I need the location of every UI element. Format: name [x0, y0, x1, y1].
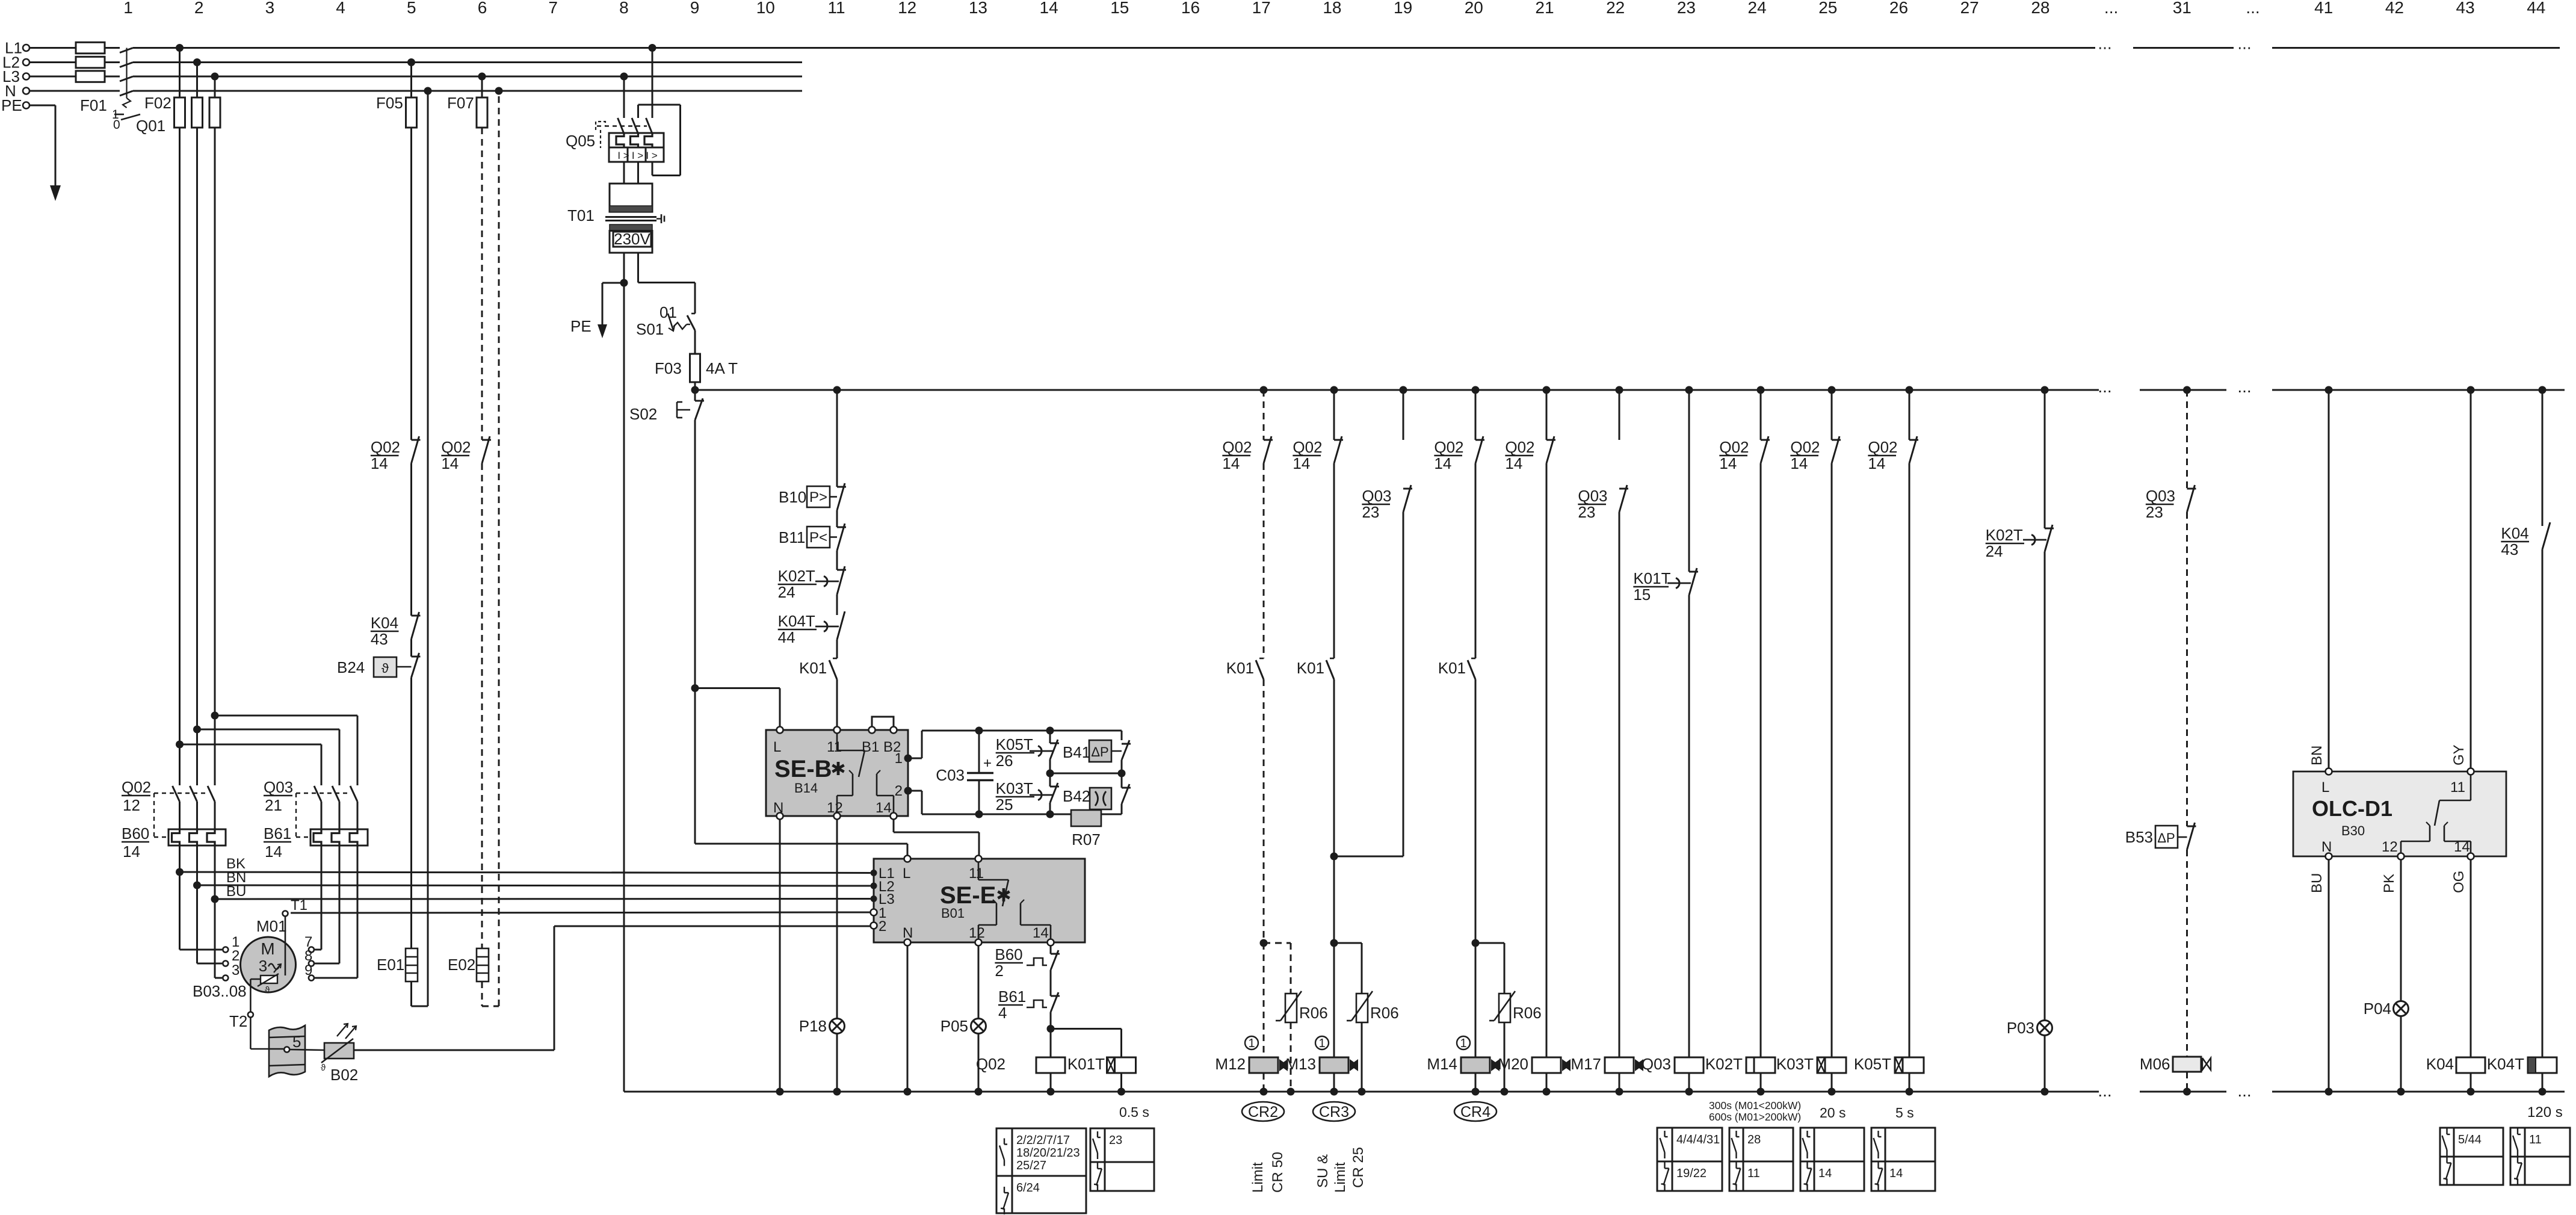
- contact Q02 14 (heater E01): [371, 436, 421, 472]
- svg-text:26: 26: [996, 752, 1013, 770]
- node M14 R06 branch: [1472, 939, 1480, 947]
- node N return: [424, 87, 432, 95]
- wire T1 to SE-E terminal 1: [291, 912, 870, 913]
- SE-E terminal 14: [1048, 939, 1054, 946]
- thermistor B02: [289, 1024, 358, 1084]
- timer contact K04T 44: [778, 611, 845, 646]
- svg-text:K03T: K03T: [996, 779, 1033, 797]
- node tap to Q03 pole 1: [176, 741, 184, 749]
- svg-text:14: 14: [1889, 1167, 1903, 1180]
- svg-text:14: 14: [1040, 0, 1058, 17]
- contact cross-reference table K04: [2440, 1128, 2503, 1185]
- svg-text:1: 1: [1460, 1037, 1466, 1050]
- svg-text:21: 21: [265, 796, 282, 814]
- svg-text:BN: BN: [2309, 746, 2325, 765]
- signal lamp P05: [941, 946, 986, 1092]
- svg-text:01: 01: [659, 303, 677, 321]
- wire SE-B N to rail: [779, 820, 781, 1092]
- fuse F05: [376, 63, 417, 128]
- svg-text:K04T: K04T: [2487, 1055, 2524, 1073]
- SE-E terminal 1 in: [871, 909, 877, 916]
- label CR3: [1313, 1102, 1355, 1121]
- svg-text:F03: F03: [655, 359, 682, 377]
- svg-text:B61: B61: [998, 988, 1026, 1006]
- label CR4: [1454, 1102, 1496, 1121]
- heater E02: [448, 948, 489, 982]
- contactor Q03 main contacts: [264, 778, 357, 837]
- terminal L1: [23, 45, 29, 51]
- resistor R06 (M13): [1334, 943, 1399, 1092]
- svg-text:14: 14: [1719, 454, 1737, 472]
- node C03 top: [975, 727, 983, 735]
- solenoid coil M14 CR4: [1427, 1036, 1500, 1092]
- svg-text:K04: K04: [2501, 524, 2528, 542]
- column ruler numbers: [123, 0, 2545, 17]
- svg-text:M20: M20: [1498, 1055, 1528, 1073]
- wire rung B: [836, 390, 838, 726]
- svg-text:...: ...: [2237, 1081, 2251, 1100]
- motor terminal 8: [309, 961, 314, 966]
- wire T01 secondary live to S01: [638, 253, 696, 314]
- contact B61 4: [998, 988, 1060, 1029]
- SE-B terminal L: [777, 727, 783, 734]
- fuse F02 (3x): [144, 94, 220, 128]
- svg-text:K01: K01: [1226, 659, 1254, 677]
- svg-text:F02: F02: [144, 94, 171, 112]
- svg-text:14: 14: [1293, 454, 1310, 472]
- svg-text:10: 10: [756, 0, 775, 17]
- svg-text:...: ...: [2237, 34, 2251, 53]
- svg-text:...: ...: [2104, 0, 2118, 17]
- svg-text:P<: P<: [809, 530, 827, 546]
- wire to SE-B terminal L: [695, 688, 780, 727]
- svg-text:0.5 s: 0.5 s: [1119, 1104, 1149, 1120]
- node M14 rail: [1472, 1088, 1480, 1096]
- node rung B10: [833, 386, 841, 394]
- SE-B terminal 12: [834, 813, 841, 820]
- node M13 R06 branch: [1330, 939, 1338, 947]
- svg-text:PE: PE: [1, 96, 22, 114]
- contact cross-reference table K03T: [1800, 1128, 1864, 1191]
- rung M06 (dashed option): [2125, 386, 2211, 1092]
- svg-text:12: 12: [2382, 839, 2398, 855]
- svg-text:C03: C03: [936, 766, 965, 784]
- svg-text:B30: B30: [2341, 823, 2365, 838]
- node middle rail left: [1046, 770, 1054, 778]
- svg-text:20: 20: [1465, 0, 1483, 17]
- node K02T rail: [1757, 1088, 1765, 1096]
- node T01 neutral: [620, 279, 628, 287]
- svg-text:K04T: K04T: [778, 612, 815, 630]
- svg-text:CR 25: CR 25: [1350, 1147, 1367, 1188]
- wire to SE-E terminal L: [695, 688, 907, 856]
- signal lamp P04 on PK wire: [2364, 860, 2409, 1092]
- node L3-F02: [211, 73, 219, 81]
- svg-text:...: ...: [2246, 0, 2259, 17]
- svg-text:14: 14: [1434, 454, 1451, 472]
- contact K01 (rung B): [799, 658, 837, 679]
- svg-text:ΔP: ΔP: [1091, 744, 1108, 759]
- svg-text:24: 24: [778, 583, 795, 601]
- rung K02T coil: [1705, 386, 1775, 1092]
- wire SE-E N to rail: [907, 946, 909, 1092]
- label SU Limit CR 25: [1315, 1147, 1367, 1193]
- svg-text:15: 15: [1633, 586, 1651, 604]
- svg-text:M14: M14: [1427, 1055, 1457, 1073]
- svg-text:12: 12: [898, 0, 916, 17]
- resistor R06 (M14): [1475, 943, 1542, 1092]
- svg-text:K04: K04: [2426, 1055, 2454, 1073]
- svg-text:B02: B02: [330, 1066, 358, 1084]
- svg-text:ϑ: ϑ: [381, 661, 389, 676]
- svg-text:Q02: Q02: [1790, 438, 1820, 456]
- timer contact K02T 24: [778, 566, 846, 601]
- svg-text:4A T: 4A T: [706, 359, 738, 377]
- node coil branch: [1047, 1025, 1055, 1033]
- node L3-Q05: [620, 73, 628, 81]
- svg-text:42: 42: [2385, 0, 2404, 17]
- svg-text:1: 1: [895, 750, 903, 767]
- svg-text:ΔP: ΔP: [2157, 830, 2175, 846]
- oil sensor B42: [1063, 773, 1131, 814]
- timer contact K05T 26: [996, 731, 1059, 773]
- svg-text:18/20/21/23: 18/20/21/23: [1016, 1146, 1080, 1160]
- svg-text:OG: OG: [2451, 871, 2467, 893]
- label Limit CR 50: [1250, 1152, 1286, 1193]
- wire N bus: [29, 90, 802, 92]
- svg-text:B53: B53: [2125, 828, 2153, 846]
- svg-text:12: 12: [123, 796, 140, 814]
- svg-text:B11: B11: [779, 528, 805, 546]
- heater E01: [377, 948, 418, 982]
- svg-text:25/27: 25/27: [1016, 1159, 1046, 1172]
- svg-text:ϑ: ϑ: [321, 1063, 326, 1073]
- protection module SE-B* B14: [766, 730, 908, 816]
- node M20 rail: [1543, 1088, 1551, 1096]
- contact B60 2: [995, 945, 1060, 996]
- svg-text:F01: F01: [80, 96, 107, 114]
- svg-text:K02T: K02T: [778, 567, 815, 585]
- svg-text:43: 43: [2456, 0, 2475, 17]
- svg-text:1: 1: [1248, 1037, 1255, 1050]
- OLC terminal 14: [2468, 853, 2474, 860]
- svg-text:2/2/2/7/17: 2/2/2/7/17: [1016, 1134, 1070, 1147]
- node tap to Q03 pole 2: [193, 726, 201, 734]
- svg-text:1: 1: [123, 0, 133, 17]
- fuse F03 4A T: [655, 354, 738, 390]
- SE-B terminal 14: [891, 813, 897, 820]
- SE-B terminal B2: [891, 727, 897, 734]
- svg-text:Q02: Q02: [1505, 438, 1534, 456]
- capacitor C03: [936, 731, 993, 814]
- svg-text:43: 43: [2501, 540, 2518, 558]
- svg-text:2: 2: [232, 948, 239, 964]
- svg-text:4: 4: [998, 1004, 1007, 1022]
- svg-text:2: 2: [895, 783, 903, 799]
- svg-text:23: 23: [2146, 503, 2163, 521]
- contact K04 43: [371, 612, 421, 648]
- contactor coil Q02: [976, 1029, 1065, 1092]
- svg-text:BU: BU: [2309, 873, 2325, 893]
- wire tap to Q03 pole 1: [180, 744, 322, 785]
- svg-text:P>: P>: [809, 489, 827, 505]
- svg-text:CR3: CR3: [1319, 1104, 1349, 1121]
- wire BN: [197, 870, 871, 886]
- svg-text:13: 13: [969, 0, 987, 17]
- wire L1 bus: [29, 34, 2560, 53]
- svg-text:K02T: K02T: [1986, 526, 2023, 544]
- rung M17: [1571, 386, 1643, 1092]
- svg-text:+: +: [983, 755, 992, 771]
- svg-text:27: 27: [1960, 0, 1979, 17]
- SE-E terminal L: [904, 856, 911, 862]
- svg-text:6: 6: [478, 0, 487, 17]
- wire L3 bus: [29, 76, 802, 78]
- svg-text:B24: B24: [337, 658, 365, 676]
- pressure switch B10 P>: [779, 483, 846, 510]
- svg-text:K01: K01: [1438, 659, 1466, 677]
- resistor R07: [1071, 810, 1122, 849]
- svg-text:B61: B61: [264, 824, 291, 842]
- relay coil K04 on OG wire: [2426, 860, 2485, 1092]
- node M12 rail: [1260, 1088, 1268, 1096]
- svg-text:Q03: Q03: [1362, 487, 1391, 505]
- svg-text:K01: K01: [799, 659, 827, 677]
- svg-text:CR2: CR2: [1248, 1104, 1278, 1121]
- wire SE-B 2 to bottom rail: [908, 791, 1071, 814]
- svg-text:41: 41: [2314, 0, 2333, 17]
- svg-text:14: 14: [1033, 925, 1049, 941]
- svg-text:B14: B14: [794, 781, 818, 796]
- node middle rail right: [1118, 770, 1126, 778]
- svg-text:Q02: Q02: [122, 778, 151, 796]
- svg-text:4/4/4/31: 4/4/4/31: [1676, 1133, 1720, 1146]
- flow switch B60 (3x): [122, 824, 226, 861]
- svg-text:CR 50: CR 50: [1270, 1152, 1286, 1193]
- svg-text:5: 5: [407, 0, 416, 17]
- node M13 rail: [1330, 1088, 1338, 1096]
- svg-text:P04: P04: [2364, 1000, 2391, 1018]
- svg-text:R06: R06: [1370, 1004, 1399, 1022]
- svg-text:R06: R06: [1299, 1004, 1328, 1022]
- svg-text:24: 24: [1748, 0, 1767, 17]
- svg-text:B41: B41: [1063, 743, 1090, 761]
- svg-text:SE-B: SE-B: [774, 756, 832, 782]
- node Q03 coil rail: [1685, 1088, 1693, 1096]
- svg-text:R07: R07: [1072, 830, 1101, 849]
- svg-text:K02T: K02T: [1705, 1055, 1743, 1073]
- transformer T01: [567, 184, 664, 253]
- svg-text:B10: B10: [779, 488, 806, 506]
- fuse F01 (3x): [76, 42, 107, 114]
- node K05T top: [1046, 727, 1054, 735]
- svg-text:M06: M06: [2140, 1055, 2170, 1073]
- svg-text:20 s: 20 s: [1820, 1105, 1846, 1121]
- contact cross-reference table K01T: [1090, 1128, 1154, 1191]
- rung Q03 coil: [1633, 386, 1703, 1092]
- rung M13: [1293, 386, 1343, 1058]
- wire phase V F02 to Q02 contactor: [196, 63, 198, 786]
- motor M01: [241, 917, 296, 995]
- svg-text:S02: S02: [629, 405, 657, 423]
- svg-text:14: 14: [1222, 454, 1240, 472]
- contact Q02 14 (heater E02): [441, 436, 491, 472]
- node P03 rail: [2041, 1088, 2049, 1096]
- wire middle rail B41-B42: [1050, 773, 1122, 774]
- node K04T rail: [2539, 1088, 2547, 1096]
- SE-B terminal 2: [904, 787, 912, 795]
- svg-text:11: 11: [2450, 779, 2465, 796]
- svg-text:5/44: 5/44: [2458, 1133, 2482, 1146]
- svg-text:K01T: K01T: [1067, 1055, 1105, 1073]
- svg-text:2: 2: [194, 0, 204, 17]
- SE-E terminal N: [904, 939, 911, 946]
- svg-text:2: 2: [879, 918, 886, 935]
- svg-text:24: 24: [1986, 542, 2003, 560]
- rung P03: [1986, 386, 2054, 1092]
- svg-text:2: 2: [995, 962, 1003, 980]
- OLC terminal L: [2326, 768, 2332, 775]
- contact cross-reference table K02T: [1729, 1128, 1793, 1191]
- wire SE-B 1 to C03 top rail: [908, 731, 1122, 758]
- svg-text:11: 11: [827, 0, 845, 17]
- svg-text:25: 25: [996, 796, 1013, 814]
- wire Q03 to B61 to motor 7-8-9: [315, 802, 357, 978]
- SE-E terminal 12: [975, 939, 982, 946]
- svg-text:Limit: Limit: [1250, 1162, 1266, 1193]
- node R06 M14 rail: [1501, 1088, 1509, 1096]
- svg-text:Q05: Q05: [566, 132, 595, 150]
- svg-text:23: 23: [1362, 503, 1379, 521]
- svg-text:3: 3: [259, 957, 267, 975]
- svg-text:14: 14: [123, 842, 140, 861]
- node Q02 coil rail: [1047, 1088, 1055, 1096]
- terminal T2: [229, 979, 261, 1049]
- node K03T bottom: [1046, 811, 1054, 818]
- svg-text:SU &: SU &: [1315, 1154, 1331, 1188]
- svg-text:B60: B60: [122, 824, 149, 842]
- rung K04T: [2487, 386, 2557, 1092]
- SE-E terminal L2: [871, 883, 877, 889]
- terminal L2: [23, 59, 29, 66]
- svg-text:...: ...: [2098, 34, 2111, 53]
- wire control bus L: [695, 377, 2565, 396]
- node N return 2: [495, 87, 503, 95]
- signal lamp P18: [799, 820, 845, 1092]
- node K05T rail: [1906, 1088, 1913, 1096]
- svg-text:14: 14: [441, 454, 459, 472]
- SE-E terminal L3: [871, 895, 877, 902]
- svg-text:P03: P03: [2007, 1019, 2034, 1037]
- svg-text:E02: E02: [448, 956, 475, 974]
- svg-text:Q03: Q03: [1578, 487, 1607, 505]
- svg-text:14: 14: [1818, 1167, 1832, 1180]
- SE-B terminal N: [777, 813, 783, 820]
- rung GY to OLC 11: [2451, 386, 2475, 768]
- thermostat B24: [337, 653, 421, 678]
- svg-text:L: L: [903, 865, 910, 882]
- svg-text:23: 23: [1578, 503, 1595, 521]
- wire neutral rail N: [624, 1081, 2565, 1100]
- motor terminal 7: [309, 947, 314, 953]
- motor protection switch Q05: [566, 48, 681, 184]
- svg-text:B03..08: B03..08: [193, 982, 247, 1000]
- svg-text:P18: P18: [799, 1017, 827, 1035]
- svg-text:M01: M01: [256, 917, 287, 935]
- svg-text:ϑ: ϑ: [265, 985, 270, 995]
- node SE-B N rail: [776, 1088, 784, 1096]
- svg-text:9: 9: [304, 962, 312, 978]
- svg-text:28: 28: [2031, 0, 2049, 17]
- svg-text:120 s: 120 s: [2527, 1104, 2563, 1121]
- wire SE-B 14 to SE-E 11: [894, 820, 979, 855]
- oil level control OLC-D1 B30: [2293, 771, 2506, 856]
- sensor bundle B03..08 box: [250, 1025, 305, 1077]
- motor terminal 2: [223, 961, 228, 966]
- svg-text:14: 14: [1790, 454, 1808, 472]
- svg-text:5: 5: [292, 1033, 301, 1051]
- svg-text:44: 44: [778, 628, 795, 646]
- svg-text:4: 4: [336, 0, 345, 17]
- svg-text:300s (M01<200kW): 300s (M01<200kW): [1709, 1099, 1801, 1111]
- node P18 rail: [833, 1088, 841, 1096]
- svg-text:31: 31: [2173, 0, 2191, 17]
- SE-B terminal B1: [869, 727, 876, 734]
- svg-text:Q02: Q02: [1434, 438, 1463, 456]
- svg-text:T01: T01: [567, 206, 595, 224]
- PE arrow at transformer: [570, 283, 624, 338]
- svg-text:L: L: [2321, 779, 2329, 796]
- svg-text:Q03: Q03: [2146, 487, 2175, 505]
- svg-text:OLC-D1: OLC-D1: [2312, 796, 2392, 821]
- svg-text:16: 16: [1181, 0, 1200, 17]
- rung BN to OLC L: [2309, 386, 2333, 768]
- svg-text:BU: BU: [226, 883, 246, 900]
- svg-text:14: 14: [1868, 454, 1885, 472]
- svg-text:Q03: Q03: [264, 778, 293, 796]
- svg-text:22: 22: [1606, 0, 1625, 17]
- svg-text:19: 19: [1394, 0, 1412, 17]
- svg-text:19/22: 19/22: [1676, 1167, 1707, 1180]
- svg-text:L: L: [773, 739, 781, 755]
- svg-text:11: 11: [2529, 1133, 2542, 1146]
- rung K03T coil: [1776, 386, 1846, 1092]
- motor terminal 9: [309, 975, 314, 981]
- switch S02 emergency stop: [629, 390, 704, 688]
- switch-disconnector Q01: [112, 48, 165, 135]
- svg-text:11: 11: [1747, 1167, 1760, 1180]
- node L3-F07: [478, 73, 486, 81]
- svg-text:SE-E: SE-E: [940, 882, 996, 909]
- OLC terminal 12: [2398, 853, 2405, 860]
- node control bus feed: [691, 386, 699, 394]
- svg-text:...: ...: [2237, 377, 2251, 396]
- node L1-F02: [176, 44, 184, 52]
- rung M14: [1434, 386, 1484, 1058]
- svg-text:F05: F05: [376, 94, 403, 112]
- node L1-Q05: [649, 44, 656, 52]
- svg-text:8: 8: [304, 948, 312, 964]
- contact cross-reference table K05T: [1871, 1128, 1935, 1191]
- contact cross-reference table Q03: [1657, 1128, 1722, 1191]
- svg-text:CR4: CR4: [1460, 1104, 1490, 1121]
- svg-text:F07: F07: [447, 94, 474, 112]
- wire T01 secondary left to neutral rail: [623, 253, 625, 1092]
- contactor Q02 main contacts: [122, 778, 215, 837]
- OLC terminal 11: [2468, 768, 2474, 775]
- wire tap to Q03 pole 3: [215, 716, 357, 785]
- protection module SE-E* B01: [874, 859, 1085, 942]
